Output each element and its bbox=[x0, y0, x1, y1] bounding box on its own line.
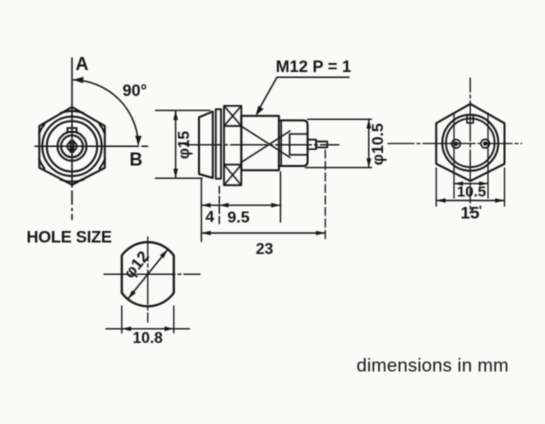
label M12 P=1 bbox=[276, 58, 351, 76]
side view terminal pin bbox=[316, 142, 327, 148]
dim 10.5 left extension line bbox=[453, 113, 455, 198]
svg-text:23: 23 bbox=[256, 241, 274, 258]
svg-text:4: 4 bbox=[205, 209, 214, 226]
side view flange bbox=[216, 109, 221, 179]
front bezel inner circle bbox=[47, 121, 97, 171]
dim 10.8 right extension line bbox=[173, 306, 175, 333]
front view vertical centerline bbox=[71, 58, 73, 220]
front hex chamfer arc right-lower bbox=[99, 159, 105, 169]
rear view horizontal centerline bbox=[388, 143, 522, 145]
rear view inner circle bbox=[446, 119, 495, 168]
svg-text:HOLE SIZE: HOLE SIZE bbox=[27, 229, 112, 247]
svg-text:B: B bbox=[130, 150, 143, 170]
label 15 bbox=[461, 204, 482, 223]
dim 15 left extension line bbox=[435, 168, 437, 206]
dim 15 dimension line bbox=[436, 198, 504, 202]
rear view hexagon bbox=[436, 104, 504, 181]
side view threaded body bbox=[241, 116, 279, 170]
front keyway ring outer circle with notch bbox=[67, 128, 76, 132]
svg-text:10.5: 10.5 bbox=[457, 183, 486, 200]
dim 23 right extension line bbox=[324, 150, 326, 240]
label phi15 (rotated) bbox=[176, 130, 193, 159]
label B bbox=[130, 150, 143, 170]
svg-text:9.5: 9.5 bbox=[227, 210, 249, 227]
rear view vertical centerline bbox=[469, 78, 471, 213]
front hex chamfer arc top bbox=[61, 111, 84, 113]
dim 4 left extension line bbox=[200, 179, 202, 242]
front view horizontal centerline bbox=[35, 145, 148, 147]
dim 23 dimension line bbox=[201, 231, 325, 236]
front keyway ring inner circle bbox=[61, 135, 83, 157]
label phi12 (rotated) bbox=[121, 248, 153, 282]
dim 9.5 right extension line bbox=[280, 172, 282, 222]
svg-text:A: A bbox=[76, 54, 89, 74]
M12 leader line bbox=[256, 77, 349, 115]
svg-text:15: 15 bbox=[461, 204, 480, 223]
front hex chamfer arc right-upper bbox=[99, 124, 105, 134]
front hex chamfer arc left-lower bbox=[39, 159, 45, 169]
side view terminal pin base bbox=[308, 140, 317, 150]
phi15 top extension line bbox=[156, 109, 211, 111]
svg-text:M12 P = 1: M12 P = 1 bbox=[276, 58, 351, 76]
dim 10.8 dimension line bbox=[106, 327, 190, 332]
dim 10.5 right extension line bbox=[487, 113, 489, 198]
front key slot bbox=[67, 141, 76, 153]
front bezel outer circle bbox=[42, 117, 101, 176]
phi15 dimension line bbox=[173, 111, 178, 178]
side view rear body bbox=[279, 120, 308, 166]
hole outline (circle with two flats) bbox=[122, 242, 174, 306]
label HOLE SIZE bbox=[27, 229, 112, 247]
phi15 bottom extension line bbox=[156, 177, 203, 179]
phi10.5 bottom extension line bbox=[306, 167, 372, 169]
rear view keyway notch bbox=[467, 115, 473, 123]
side view horizontal centerline bbox=[186, 144, 340, 146]
side view terminal housing bbox=[290, 134, 308, 155]
dim 4 / 9.5 dimension line bbox=[201, 203, 280, 208]
svg-text:90°: 90° bbox=[123, 82, 147, 100]
label 9.5 bbox=[227, 210, 249, 227]
svg-text:φ10.5: φ10.5 bbox=[370, 123, 387, 165]
svg-text:10.8: 10.8 bbox=[133, 330, 164, 347]
label 23 bbox=[256, 241, 274, 258]
svg-text:dimensions in mm: dimensions in mm bbox=[357, 355, 509, 376]
label 10.5 bbox=[457, 183, 486, 200]
label 90deg bbox=[123, 82, 147, 100]
dim 10.5 dimension line with arrows bbox=[454, 181, 488, 185]
label 10.8 bbox=[133, 330, 164, 347]
dim 4 right extension line (dashed) bbox=[218, 187, 220, 226]
rear view outer circle bbox=[442, 115, 498, 171]
hole view horizontal centerline bbox=[104, 273, 200, 275]
side view hex nut bbox=[224, 106, 241, 185]
front hex chamfer arc left-upper bbox=[39, 124, 45, 134]
hole view vertical centerline bbox=[147, 237, 149, 322]
rear view right terminal bbox=[481, 139, 490, 148]
label phi10.5 (rotated) bbox=[370, 123, 387, 165]
phi12 diagonal dimension line bbox=[128, 249, 168, 299]
dim 10.8 left extension line bbox=[121, 306, 123, 333]
front hex chamfer arc bottom bbox=[61, 180, 84, 182]
front view hexagon bbox=[39, 107, 105, 185]
label A bbox=[76, 54, 89, 74]
label dimensions in mm bbox=[357, 355, 509, 376]
phi10.5 dimension line bbox=[367, 119, 372, 167]
rear view left terminal bbox=[452, 140, 461, 149]
side view head bezel bbox=[199, 112, 213, 179]
phi10.5 top extension line bbox=[308, 118, 372, 120]
dim 15 right extension line bbox=[504, 168, 506, 206]
label 4 bbox=[205, 209, 214, 226]
90 degree arc bbox=[73, 77, 141, 146]
side view body thread cross X bbox=[241, 126, 290, 163]
